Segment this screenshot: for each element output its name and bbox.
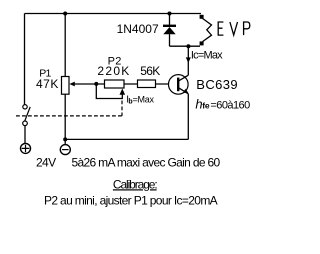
- svg-text:Calibrage:: Calibrage:: [113, 177, 157, 191]
- svg-text:BC639: BC639: [196, 77, 238, 92]
- svg-text:=Max: =Max: [133, 94, 155, 104]
- svg-text:24V: 24V: [36, 155, 56, 169]
- svg-text:P2 au mini, ajuster P1 pour Ic: P2 au mini, ajuster P1 pour Ic=20mA: [44, 193, 218, 207]
- svg-text:56K: 56K: [140, 64, 160, 78]
- svg-text:Ic=Max: Ic=Max: [191, 50, 223, 62]
- svg-text:1N4007: 1N4007: [117, 22, 159, 36]
- svg-text:220K: 220K: [97, 64, 130, 78]
- svg-text:fe: fe: [202, 101, 210, 111]
- svg-text:47K: 47K: [36, 77, 59, 91]
- svg-text:=60à160: =60à160: [210, 100, 250, 112]
- svg-text:5à26 mA maxi avec Gain de 60: 5à26 mA maxi avec Gain de 60: [72, 155, 221, 169]
